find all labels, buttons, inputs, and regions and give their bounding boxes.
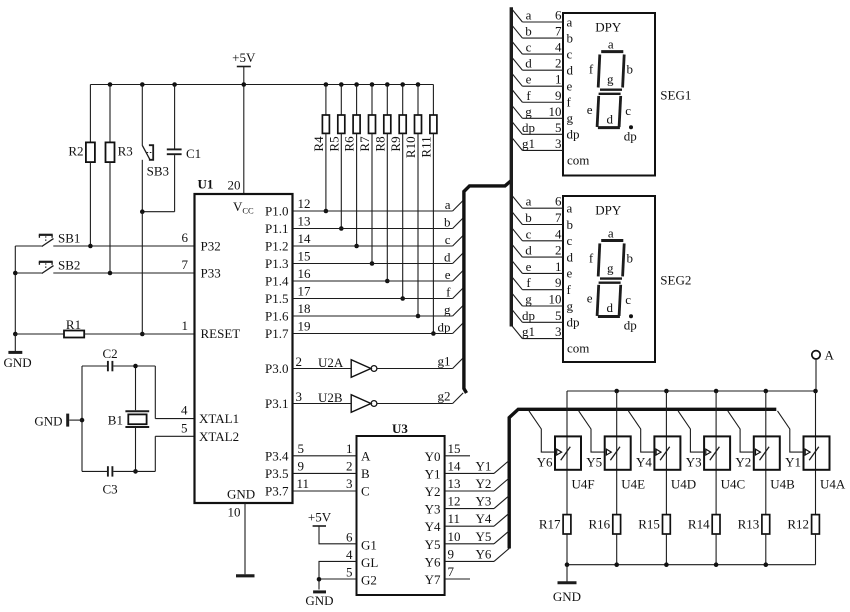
svg-text:e: e — [567, 266, 573, 281]
pin 16 P1.4 — [265, 266, 311, 289]
pin 4 XTAL1 — [181, 403, 239, 427]
display DPY SEG2 box — [563, 196, 691, 362]
pin 5 dp SEG2 — [511, 308, 579, 330]
svg-text:4: 4 — [181, 403, 188, 418]
crystal B1 — [108, 364, 149, 474]
svg-text:P3.7: P3.7 — [265, 484, 289, 499]
svg-text:d: d — [525, 56, 532, 71]
svg-text:SB3: SB3 — [147, 163, 169, 178]
wire d segment net — [293, 250, 464, 265]
resistor R1 — [15, 317, 194, 338]
svg-text:U4F: U4F — [572, 477, 595, 492]
svg-text:C3: C3 — [103, 482, 118, 497]
svg-text:R12: R12 — [787, 517, 809, 532]
pin 18 P1.6 — [265, 301, 310, 324]
svg-text:g: g — [567, 298, 574, 313]
svg-text:f: f — [567, 282, 572, 297]
svg-text:2: 2 — [296, 354, 303, 369]
svg-text:c: c — [567, 233, 573, 248]
svg-text:XTAL2: XTAL2 — [199, 429, 239, 444]
svg-text:a: a — [526, 8, 532, 23]
svg-text:f: f — [589, 250, 594, 265]
svg-text:P1.6: P1.6 — [265, 309, 289, 324]
resistor R11 — [419, 85, 437, 336]
svg-text:XTAL1: XTAL1 — [199, 411, 239, 426]
svg-text:5: 5 — [346, 565, 353, 580]
svg-text:P1.3: P1.3 — [265, 256, 288, 271]
svg-text:10: 10 — [228, 505, 241, 520]
ground (reset) — [4, 334, 32, 370]
resistor R7 — [357, 85, 375, 266]
svg-text:e: e — [587, 291, 593, 306]
pin 12 Y3 U3 — [425, 494, 510, 517]
svg-text:3: 3 — [555, 324, 562, 339]
svg-text:14: 14 — [298, 231, 312, 246]
op-amp U2A inverter — [293, 354, 464, 378]
svg-text:GND: GND — [4, 355, 32, 370]
svg-text:d: d — [606, 300, 613, 315]
resistor R5 — [326, 85, 344, 231]
pushbutton SB2 — [39, 257, 81, 273]
svg-text:dp: dp — [624, 129, 637, 144]
svg-text:R1: R1 — [66, 317, 81, 332]
svg-text:d: d — [606, 111, 613, 126]
svg-text:P1.7: P1.7 — [265, 326, 289, 341]
svg-text:P1.5: P1.5 — [265, 291, 288, 306]
wire bus mux horizontal — [509, 409, 776, 548]
ground (crystal) — [34, 413, 82, 428]
resistor R12 — [787, 515, 819, 565]
pin 1 e SEG1 — [511, 72, 572, 94]
svg-text:12: 12 — [298, 196, 311, 211]
svg-text:3: 3 — [296, 389, 303, 404]
7-segment digit SEG1 — [587, 37, 637, 144]
capacitor C2 — [82, 346, 155, 371]
pin 4 c SEG1 — [511, 40, 572, 62]
op-amp U2B inverter — [293, 389, 464, 413]
svg-text:11: 11 — [297, 476, 310, 491]
svg-text:5: 5 — [555, 308, 562, 323]
svg-text:g1: g1 — [522, 136, 535, 151]
svg-text:a: a — [526, 194, 532, 209]
svg-text:SB2: SB2 — [58, 257, 80, 272]
svg-text:dp: dp — [567, 315, 580, 330]
svg-text:19: 19 — [298, 319, 311, 334]
pin 3 C U3 — [293, 476, 370, 499]
svg-text:f: f — [526, 275, 531, 290]
svg-text:15: 15 — [298, 249, 311, 264]
resistor R14 — [688, 515, 720, 565]
svg-text:1: 1 — [555, 72, 562, 87]
svg-text:Y6: Y6 — [476, 546, 492, 561]
resistor R2 — [68, 85, 95, 247]
svg-text:dp: dp — [624, 317, 637, 332]
resistor R9 — [388, 85, 406, 301]
svg-text:R11: R11 — [419, 136, 434, 157]
svg-text:b: b — [567, 30, 574, 45]
svg-text:d: d — [525, 243, 532, 258]
svg-text:g1: g1 — [438, 354, 451, 369]
svg-text:SEG2: SEG2 — [660, 273, 691, 288]
svg-text:com: com — [567, 341, 589, 356]
resistor R13 — [738, 515, 770, 565]
svg-text:2: 2 — [346, 458, 353, 473]
svg-text:14: 14 — [448, 458, 462, 473]
op IC U1 box — [195, 177, 293, 504]
svg-text:R5: R5 — [326, 136, 341, 151]
svg-text:DPY: DPY — [595, 203, 622, 218]
svg-text:Y5: Y5 — [425, 537, 441, 552]
svg-text:SB1: SB1 — [58, 230, 80, 245]
wire dp segment net — [293, 320, 464, 335]
svg-text:c: c — [526, 40, 532, 55]
svg-text:dp: dp — [567, 127, 580, 142]
svg-text:C: C — [361, 484, 370, 499]
svg-text:4: 4 — [346, 547, 353, 562]
svg-text:P32: P32 — [201, 239, 221, 254]
pin 5 P3.4 — [265, 441, 304, 464]
svg-text:P33: P33 — [201, 266, 221, 281]
svg-text:b: b — [525, 210, 532, 225]
pin 6 a SEG1 — [511, 8, 572, 30]
svg-text:U4A: U4A — [820, 477, 846, 492]
pin 5 G2 — [317, 565, 377, 588]
pin 15 Y0 U3 — [425, 441, 470, 464]
svg-text:U4D: U4D — [671, 477, 696, 492]
+5V power symbol — [232, 50, 256, 194]
svg-text:DPY: DPY — [595, 20, 622, 35]
svg-text:g: g — [525, 292, 532, 307]
svg-text:10: 10 — [549, 104, 562, 119]
svg-text:10: 10 — [448, 529, 461, 544]
resistor R6 — [342, 85, 360, 249]
svg-text:R9: R9 — [388, 136, 403, 151]
svg-text:+5V: +5V — [232, 50, 256, 65]
svg-text:d: d — [567, 62, 574, 77]
pin 3 P3.1 — [265, 389, 302, 411]
pin 13 P1.1 — [265, 214, 310, 237]
pin 2 d SEG1 — [511, 56, 573, 78]
wire emitter ground rail — [565, 562, 816, 567]
svg-text:b: b — [567, 217, 574, 232]
pin 5 XTAL2 — [181, 420, 239, 444]
svg-text:P1.1: P1.1 — [265, 221, 288, 236]
svg-text:f: f — [567, 95, 572, 110]
transistor switch U4B — [728, 391, 795, 515]
svg-text:f: f — [589, 62, 594, 77]
pin 12 P1.0 — [265, 196, 310, 219]
svg-text:R14: R14 — [688, 517, 710, 532]
pin 15 P1.3 — [265, 249, 310, 272]
resistor R10 — [403, 85, 421, 319]
svg-text:R6: R6 — [342, 136, 357, 152]
pushbutton SB1 — [39, 230, 81, 246]
pin 9 f SEG1 — [511, 88, 571, 110]
svg-text:P1.0: P1.0 — [265, 204, 288, 219]
svg-text:1: 1 — [555, 259, 562, 274]
svg-text:Y4: Y4 — [425, 519, 441, 534]
pin 20 Vcc — [228, 178, 255, 216]
svg-text:G1: G1 — [361, 537, 377, 552]
svg-text:GND: GND — [553, 589, 581, 604]
wire XTAL2 — [155, 436, 194, 471]
svg-text:5: 5 — [181, 420, 188, 435]
pin 9 P3.5 — [265, 458, 304, 481]
svg-text:U1: U1 — [198, 177, 214, 192]
wire left vertical — [13, 246, 18, 336]
pin 7 b SEG1 — [511, 24, 573, 46]
svg-text:Y5: Y5 — [476, 529, 492, 544]
wire P32 net — [15, 244, 194, 249]
svg-text:18: 18 — [298, 301, 311, 316]
svg-text:b: b — [626, 250, 633, 265]
svg-text:f: f — [446, 285, 451, 300]
svg-text:U4B: U4B — [770, 477, 795, 492]
svg-text:a: a — [608, 225, 614, 240]
pin 4 GL — [319, 547, 378, 590]
resistor R4 — [311, 85, 329, 214]
svg-text:Y4: Y4 — [476, 511, 492, 526]
svg-text:P3.1: P3.1 — [265, 396, 288, 411]
svg-text:3: 3 — [555, 136, 562, 151]
wire e segment net — [293, 267, 464, 282]
svg-text:c: c — [625, 103, 631, 118]
svg-text:9: 9 — [298, 458, 305, 473]
svg-text:R2: R2 — [68, 144, 83, 159]
svg-text:13: 13 — [298, 214, 311, 229]
pin 19 P1.7 — [265, 319, 310, 342]
svg-text:7: 7 — [555, 210, 562, 225]
svg-text:d: d — [567, 249, 574, 264]
svg-text:Y4: Y4 — [636, 455, 652, 470]
svg-text:dp: dp — [438, 320, 451, 335]
wire common collector rail — [567, 389, 818, 394]
wire c segment net — [293, 232, 464, 247]
svg-text:b: b — [626, 62, 633, 77]
pin 3 com SEG1 — [511, 136, 589, 168]
svg-text:+5V: +5V — [308, 510, 332, 525]
svg-text:Y7: Y7 — [425, 572, 441, 587]
pin 2 d SEG2 — [511, 243, 573, 265]
pin 1 RESET — [182, 318, 241, 341]
resistor R16 — [589, 515, 621, 565]
svg-text:g: g — [567, 111, 574, 126]
svg-text:1: 1 — [182, 318, 189, 333]
svg-text:2: 2 — [555, 243, 562, 258]
svg-text:Y2: Y2 — [425, 484, 441, 499]
svg-text:R17: R17 — [539, 517, 561, 532]
svg-text:R8: R8 — [372, 136, 387, 151]
pin 6 P32 — [182, 230, 221, 254]
wire a segment net — [293, 197, 464, 212]
svg-text:g: g — [607, 72, 614, 87]
svg-text:A: A — [361, 448, 371, 463]
svg-text:SEG1: SEG1 — [660, 88, 691, 103]
capacitor C1 — [167, 85, 201, 212]
svg-text:a: a — [567, 14, 573, 29]
svg-text:Y2: Y2 — [735, 455, 751, 470]
svg-text:b: b — [525, 24, 532, 39]
svg-text:RESET: RESET — [201, 326, 241, 341]
pin 4 c SEG2 — [511, 226, 572, 248]
svg-text:a: a — [608, 37, 614, 52]
transistor switch U4A — [778, 391, 846, 515]
pin 13 Y2 U3 — [425, 476, 510, 499]
svg-text:U2B: U2B — [318, 390, 343, 405]
transistor switch U4C — [678, 391, 745, 515]
pin 2 B U3 — [293, 458, 371, 481]
svg-text:b: b — [444, 215, 451, 230]
pin 10 Y5 U3 — [425, 529, 510, 552]
svg-text:9: 9 — [555, 275, 562, 290]
pin 10 GND — [227, 487, 255, 576]
svg-text:R7: R7 — [357, 136, 372, 152]
svg-text:R10: R10 — [403, 136, 418, 158]
pin 2 P3.0 — [265, 354, 302, 376]
resistor R3 — [106, 85, 133, 274]
svg-text:13: 13 — [448, 476, 461, 491]
svg-text:Y1: Y1 — [425, 466, 441, 481]
svg-text:P3.5: P3.5 — [265, 466, 288, 481]
capacitor C3 — [82, 466, 155, 496]
op IC U3 box — [357, 421, 445, 595]
svg-text:R16: R16 — [589, 517, 611, 532]
svg-text:5: 5 — [298, 441, 305, 456]
resistor R8 — [372, 85, 390, 284]
svg-text:U2A: U2A — [318, 355, 344, 370]
pin 10 g SEG2 — [511, 292, 573, 314]
wire +5V rail — [90, 84, 433, 86]
svg-text:U4C: U4C — [721, 477, 746, 492]
svg-text:9: 9 — [555, 88, 562, 103]
pin 1 e SEG2 — [511, 259, 572, 281]
svg-text:GL: GL — [361, 555, 378, 570]
svg-text:Y5: Y5 — [586, 455, 602, 470]
svg-text:Y6: Y6 — [425, 554, 441, 569]
svg-text:10: 10 — [549, 292, 562, 307]
svg-text:20: 20 — [228, 178, 241, 193]
ground (switch rail) — [553, 565, 581, 604]
pin 7 Y7 U3 — [425, 564, 470, 587]
transistor switch U4D — [628, 391, 696, 515]
svg-text:Y3: Y3 — [476, 494, 492, 509]
svg-text:c: c — [567, 46, 573, 61]
svg-text:P1.2: P1.2 — [265, 239, 288, 254]
svg-text:6: 6 — [182, 230, 189, 245]
svg-text:c: c — [625, 292, 631, 307]
svg-text:1: 1 — [346, 441, 353, 456]
svg-text:c: c — [526, 226, 532, 241]
+5V symbol G1 — [308, 510, 377, 553]
wire bus display vertical — [510, 7, 513, 326]
pin 6 a SEG2 — [511, 194, 572, 216]
pin 11 P3.7 — [265, 476, 309, 499]
wire g segment net — [293, 302, 464, 317]
svg-text:GND: GND — [34, 413, 62, 428]
svg-text:Y1: Y1 — [476, 458, 492, 473]
pin 9 f SEG2 — [511, 275, 571, 297]
wire SB3/C1 to reset net — [140, 209, 175, 336]
svg-text:G2: G2 — [361, 573, 377, 588]
svg-text:d: d — [444, 250, 451, 265]
svg-text:A: A — [825, 348, 835, 363]
svg-text:2: 2 — [555, 56, 562, 71]
svg-text:R4: R4 — [311, 136, 326, 152]
svg-text:com: com — [567, 152, 589, 167]
svg-text:GND: GND — [305, 593, 333, 607]
svg-text:a: a — [445, 197, 451, 212]
terminal A — [812, 348, 835, 392]
svg-text:GND: GND — [227, 487, 255, 502]
svg-text:6: 6 — [555, 8, 562, 23]
svg-text:c: c — [445, 232, 451, 247]
svg-text:Y3: Y3 — [686, 455, 702, 470]
svg-text:Y1: Y1 — [785, 455, 801, 470]
svg-text:Y2: Y2 — [476, 476, 492, 491]
svg-text:g: g — [525, 104, 532, 119]
pin 7 b SEG2 — [511, 210, 573, 232]
svg-text:6: 6 — [346, 530, 353, 545]
svg-text:R3: R3 — [118, 144, 133, 159]
svg-text:P3.4: P3.4 — [265, 448, 289, 463]
wire f segment net — [293, 285, 464, 300]
svg-text:e: e — [587, 102, 593, 117]
svg-text:Y3: Y3 — [425, 502, 441, 517]
svg-text:7: 7 — [555, 24, 562, 39]
wire b segment net — [293, 215, 464, 230]
svg-text:16: 16 — [298, 266, 312, 281]
svg-text:R13: R13 — [738, 517, 760, 532]
svg-text:dp: dp — [522, 120, 535, 135]
pin 14 Y1 U3 — [425, 458, 510, 481]
wire XTAL1 — [155, 366, 194, 419]
pin 17 P1.5 — [265, 284, 311, 307]
svg-text:U3: U3 — [392, 421, 408, 436]
pin 7 P33 — [182, 257, 221, 281]
svg-text:P1.4: P1.4 — [265, 274, 289, 289]
svg-text:4: 4 — [555, 226, 562, 241]
svg-text:g1: g1 — [522, 324, 535, 339]
transistor switch U4F — [529, 391, 595, 515]
svg-text:P3.0: P3.0 — [265, 361, 288, 376]
svg-text:7: 7 — [448, 564, 455, 579]
svg-text:dp: dp — [522, 308, 535, 323]
resistor R17 — [539, 515, 571, 565]
svg-text:B: B — [361, 466, 370, 481]
ground (U3 enables) — [305, 592, 333, 608]
svg-text:a: a — [567, 201, 573, 216]
pin 3 com SEG2 — [511, 324, 589, 356]
svg-text:g: g — [607, 260, 614, 275]
pin 1 A U3 — [293, 441, 372, 464]
resistor R15 — [638, 515, 670, 565]
pin 10 g SEG1 — [511, 104, 573, 126]
svg-text:U4E: U4E — [621, 477, 645, 492]
pin 14 P1.2 — [265, 231, 311, 254]
svg-text:17: 17 — [298, 284, 312, 299]
node rail junctions — [108, 82, 421, 87]
pushbutton SB3 — [142, 85, 169, 212]
svg-text:15: 15 — [448, 441, 461, 456]
svg-text:e: e — [445, 267, 451, 282]
svg-text:Y0: Y0 — [425, 449, 441, 464]
svg-text:g: g — [444, 302, 451, 317]
svg-text:7: 7 — [182, 257, 189, 272]
svg-text:12: 12 — [448, 494, 461, 509]
svg-text:e: e — [526, 259, 532, 274]
svg-text:5: 5 — [555, 120, 562, 135]
7-segment digit SEG2 — [587, 225, 637, 332]
